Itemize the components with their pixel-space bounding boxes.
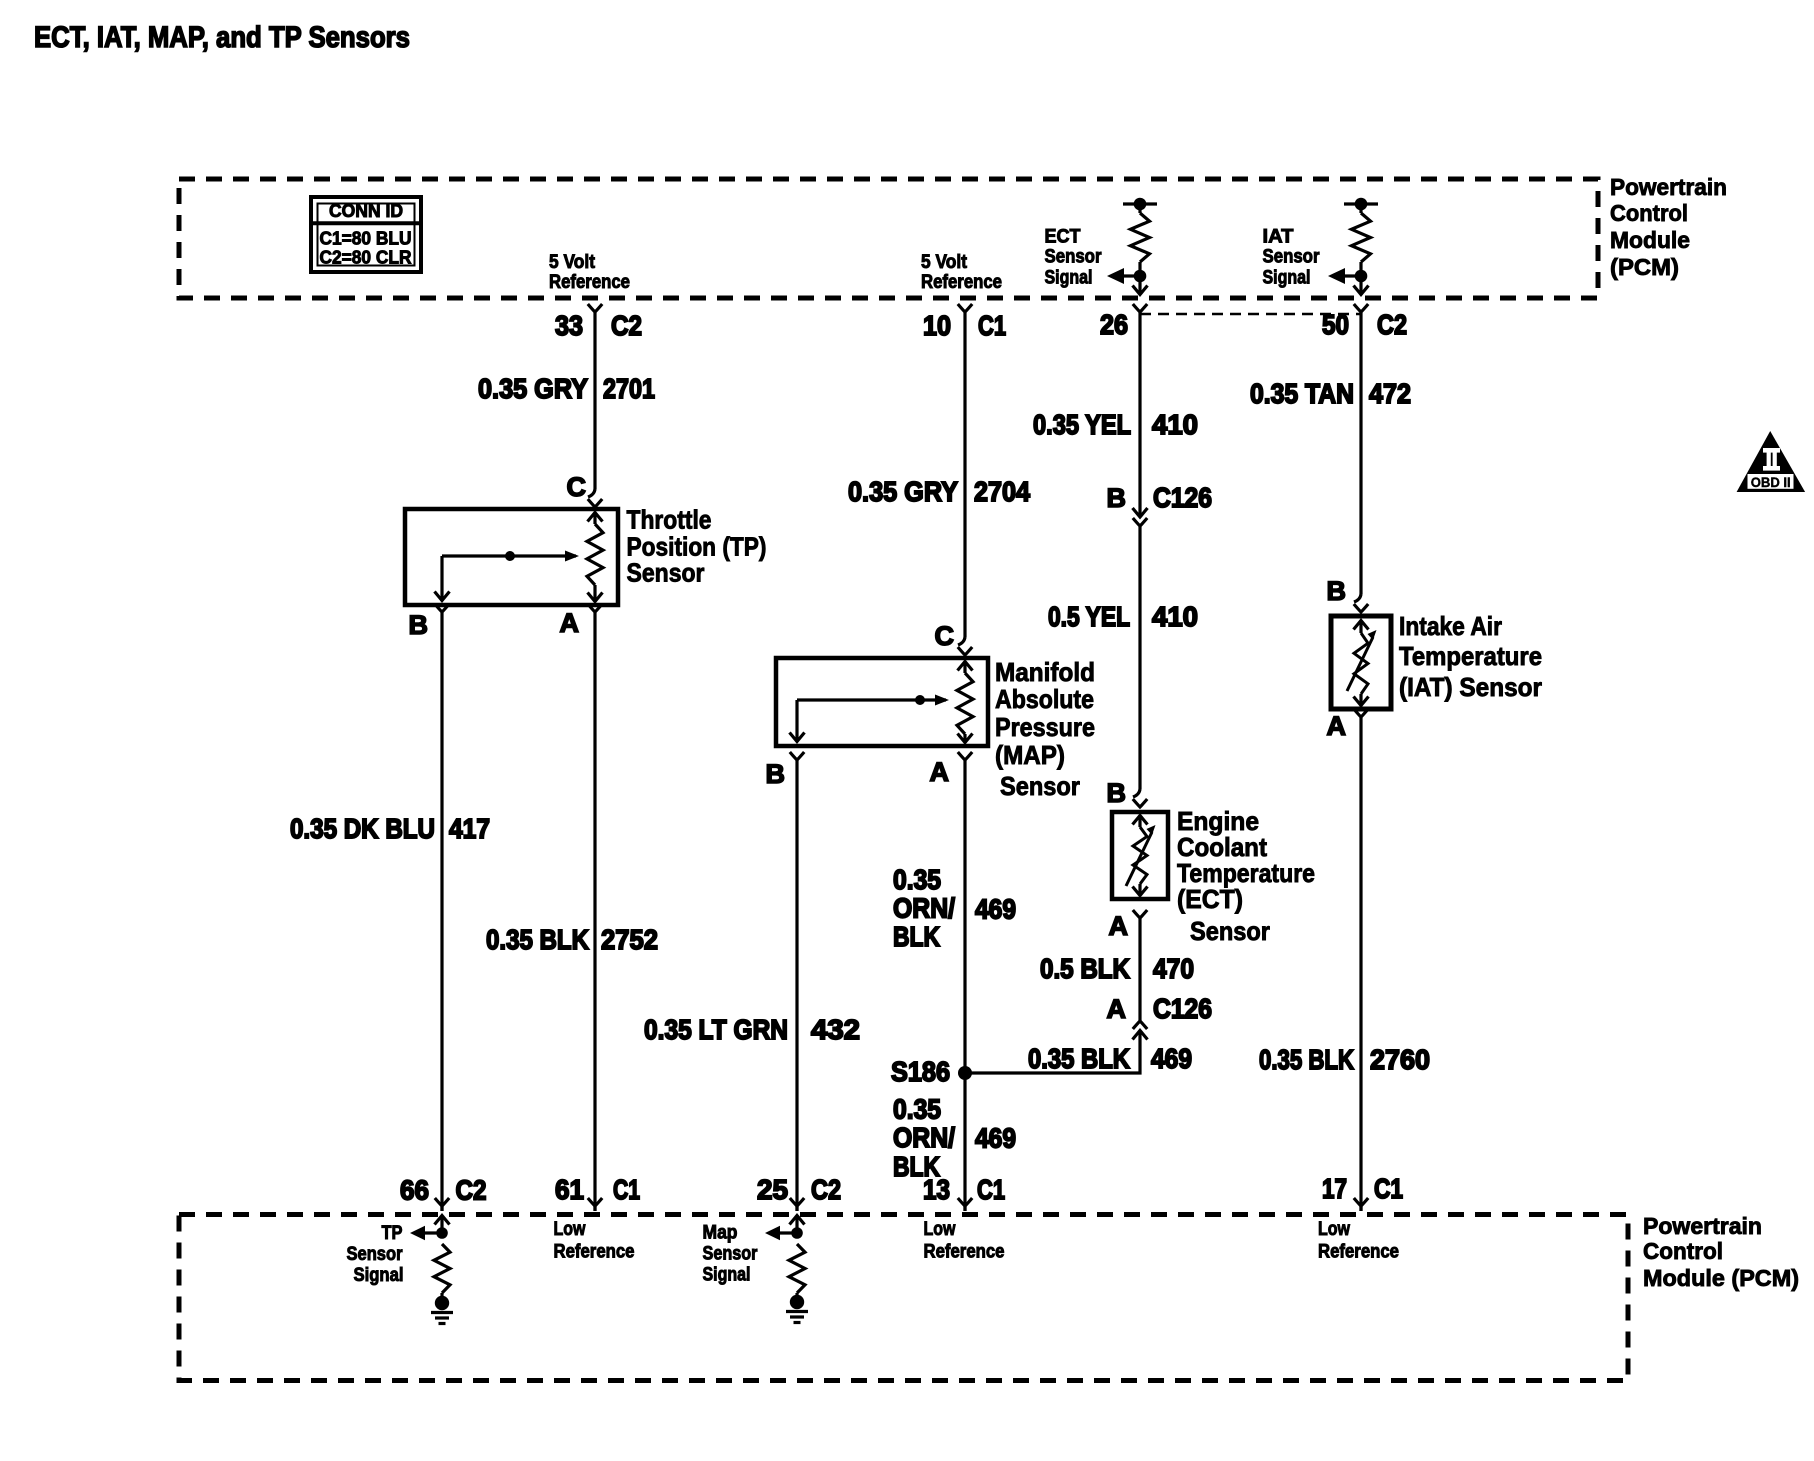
pin 66 C2 connector: [400, 1175, 487, 1212]
wire: IAT low reference 0.35 BLK 2760 (A to pin 17): [1359, 717, 1362, 1211]
terminal C of TP sensor: [567, 472, 603, 507]
svg-text:Temperature: Temperature: [1399, 641, 1542, 671]
label: 0.5 YEL 410: [1048, 601, 1198, 632]
svg-text:B: B: [1327, 576, 1346, 606]
svg-text:25: 25: [757, 1174, 788, 1205]
svg-text:A: A: [1107, 994, 1126, 1024]
wire: IAT signal to PCM pin (male terminal): [1354, 276, 1369, 295]
svg-text:469: 469: [975, 894, 1016, 925]
svg-text:C2: C2: [811, 1174, 841, 1205]
svg-text:472: 472: [1369, 378, 1411, 409]
svg-text:Module: Module: [1610, 227, 1690, 253]
svg-text:Low: Low: [554, 1218, 587, 1240]
ground (MAP signal termination): [786, 1295, 808, 1323]
wire: TP low reference 0.35 BLK 2752 (A to pin 61): [593, 612, 596, 1211]
svg-text:C: C: [935, 621, 954, 651]
terminal A of IAT sensor: [1327, 709, 1369, 741]
svg-text:0.35 BLK: 0.35 BLK: [1259, 1044, 1354, 1075]
wire: IAT sensor signal 0.35 TAN 472 (pin 50 to IAT sensor B): [1354, 312, 1361, 602]
PCM bottom dashed box (Powertrain Control Module): [179, 1215, 1628, 1381]
label: 0.35 GRY 2701: [478, 373, 655, 404]
label: IAT Sensor Signal: [1263, 225, 1320, 288]
svg-text:B: B: [1107, 483, 1126, 513]
label: TP Sensor Signal: [347, 1222, 404, 1286]
title: [34, 21, 410, 54]
thin dashed PCM edge between pins 26 and 50: [1140, 313, 1361, 315]
svg-text:C1: C1: [1374, 1173, 1403, 1204]
ground (TP signal termination): [431, 1296, 453, 1324]
svg-text:2760: 2760: [1370, 1044, 1430, 1075]
terminal A of MAP sensor: [930, 752, 973, 787]
IAT sensor signal pull-up resistor (in PCM): [1344, 198, 1378, 276]
svg-text:0.35: 0.35: [893, 864, 941, 895]
svg-text:A: A: [1109, 911, 1128, 941]
svg-text:A: A: [930, 757, 949, 787]
svg-text:Reference: Reference: [554, 1241, 635, 1263]
svg-text:C2=80 CLR: C2=80 CLR: [320, 248, 412, 268]
svg-text:Reference: Reference: [549, 271, 630, 293]
label: 0.5 BLK 470: [1040, 953, 1194, 984]
svg-text:Low: Low: [1318, 1218, 1351, 1240]
label: 0.35 BLK 2752: [486, 924, 658, 955]
svg-text:0.35 YEL: 0.35 YEL: [1033, 409, 1131, 440]
label: ECT Sensor Signal: [1045, 225, 1102, 288]
connector C126 terminal B: [1107, 482, 1213, 526]
svg-text:C1: C1: [978, 310, 1006, 341]
svg-text:5 Volt: 5 Volt: [921, 251, 967, 273]
pin 61 C1 connector: [555, 1174, 640, 1211]
terminal B of MAP sensor: [766, 752, 805, 789]
PCM top dashed box (Powertrain Control Module): [179, 179, 1598, 298]
label: Low Reference (pin 17): [1318, 1218, 1399, 1263]
wire: TP sensor signal 0.35 DK BLU 417 (B to pin 66): [440, 612, 443, 1211]
svg-text:Signal: Signal: [703, 1264, 751, 1286]
svg-text:(IAT) Sensor: (IAT) Sensor: [1399, 672, 1542, 702]
pin 26 connector: [1100, 304, 1147, 340]
IAT sensor box (Intake Air Temperature) with thermistor: [1331, 616, 1391, 709]
ECT sensor box (Engine Coolant Temperature) with thermistor: [1112, 812, 1168, 899]
label: Manifold Absolute Pressure (MAP) Sensor: [995, 657, 1095, 801]
svg-text:Reference: Reference: [921, 271, 1002, 293]
svg-text:0.35 BLK: 0.35 BLK: [486, 924, 589, 955]
label: Throttle Position (TP) Sensor: [627, 505, 767, 588]
wire: ECT sensor signal 0.35 YEL 410 (pin 26 to C126): [1133, 312, 1148, 517]
terminal C of MAP sensor: [935, 621, 973, 655]
svg-text:B: B: [1107, 778, 1126, 808]
svg-text:Sensor: Sensor: [347, 1243, 403, 1265]
svg-text:0.5 YEL: 0.5 YEL: [1048, 601, 1130, 632]
svg-text:0.35 DK BLU: 0.35 DK BLU: [290, 813, 435, 844]
svg-text:Reference: Reference: [1318, 1241, 1399, 1263]
MAP sensor box (Manifold Absolute Pressure): [776, 658, 988, 746]
svg-text:Throttle: Throttle: [627, 505, 712, 535]
connector C126 terminal A: [1107, 993, 1213, 1040]
svg-text:2752: 2752: [601, 924, 658, 955]
svg-text:0.35 LT GRN: 0.35 LT GRN: [644, 1014, 788, 1045]
svg-text:2701: 2701: [603, 373, 655, 404]
svg-text:C1=80 BLU: C1=80 BLU: [320, 229, 412, 249]
terminal B of TP sensor: [409, 604, 450, 640]
svg-text:Sensor: Sensor: [627, 558, 705, 588]
svg-text:(PCM): (PCM): [1610, 254, 1679, 280]
svg-text:C: C: [567, 472, 586, 502]
wire: 0.35 BLK 469 (C126 to splice S186): [965, 1031, 1140, 1074]
svg-text:(ECT): (ECT): [1177, 884, 1243, 914]
svg-text:33: 33: [555, 310, 583, 341]
svg-text:ECT: ECT: [1045, 225, 1081, 247]
svg-text:Powertrain: Powertrain: [1643, 1213, 1762, 1239]
node: ECT sensor signal junction: [1107, 268, 1146, 284]
svg-text:C2: C2: [456, 1175, 487, 1206]
label: 0.35 TAN 472: [1250, 378, 1411, 409]
label: 0.35 YEL 410: [1033, 409, 1198, 440]
svg-text:Sensor: Sensor: [1263, 246, 1320, 268]
label: 0.35 LT GRN 432: [644, 1014, 860, 1045]
svg-text:Manifold: Manifold: [995, 657, 1095, 687]
svg-text:13: 13: [923, 1174, 950, 1205]
svg-text:C126: C126: [1153, 482, 1212, 513]
pin 50 C2 connector: [1322, 304, 1407, 340]
svg-text:C2: C2: [611, 310, 642, 341]
svg-text:Intake Air: Intake Air: [1399, 611, 1502, 641]
svg-text:TP: TP: [382, 1222, 403, 1244]
label: 0.35 ORN/BLK 469 (above S186): [893, 864, 1016, 952]
svg-text:0.35 TAN: 0.35 TAN: [1250, 378, 1354, 409]
wire: ECT signal to PCM pin (male terminal): [1133, 276, 1148, 295]
svg-text:Control: Control: [1643, 1238, 1723, 1264]
splice S186: [891, 1056, 972, 1087]
pin 17 C1 connector: [1322, 1173, 1403, 1211]
svg-text:26: 26: [1100, 309, 1128, 340]
svg-text:0.5 BLK: 0.5 BLK: [1040, 953, 1130, 984]
terminal B of IAT sensor: [1327, 576, 1369, 612]
svg-text:Module (PCM): Module (PCM): [1643, 1265, 1799, 1291]
svg-text:469: 469: [975, 1123, 1016, 1154]
label: Map Sensor Signal: [703, 1222, 758, 1286]
svg-text:CONN ID: CONN ID: [329, 201, 403, 221]
svg-text:432: 432: [811, 1014, 860, 1045]
wire: 0.5 BLK 470 (ECT sensor A to C126): [1138, 918, 1141, 1021]
svg-text:A: A: [560, 608, 579, 638]
label: 0.35 BLK 469: [1028, 1043, 1192, 1074]
svg-text:Map: Map: [703, 1222, 738, 1244]
svg-text:2704: 2704: [974, 476, 1030, 507]
ECT sensor signal pull-up resistor (in PCM): [1123, 198, 1157, 276]
svg-text:410: 410: [1152, 409, 1198, 440]
svg-text:417: 417: [449, 813, 490, 844]
svg-text:10: 10: [923, 310, 951, 341]
MAP sensor signal input circuit in PCM (pin 25): [765, 1216, 805, 1298]
svg-text:Low: Low: [924, 1218, 957, 1240]
svg-text:0.35: 0.35: [893, 1094, 941, 1125]
CONN ID table: [311, 197, 421, 272]
svg-text:66: 66: [400, 1175, 429, 1206]
svg-text:C1: C1: [977, 1174, 1005, 1205]
svg-text:17: 17: [1322, 1173, 1347, 1204]
svg-text:0.35 BLK: 0.35 BLK: [1028, 1043, 1130, 1074]
label: 5 Volt Reference (TP): [549, 251, 630, 293]
svg-text:C126: C126: [1153, 993, 1212, 1024]
svg-text:ORN/: ORN/: [893, 1122, 955, 1153]
svg-text:C2: C2: [1377, 309, 1407, 340]
node: IAT sensor signal junction: [1328, 268, 1367, 284]
label: 5 Volt Reference (MAP): [921, 251, 1002, 293]
label: 0.35 DK BLU 417: [290, 813, 490, 844]
svg-text:Sensor: Sensor: [1190, 916, 1270, 946]
label: Powertrain Control Module (PCM) top right: [1610, 174, 1727, 280]
svg-text:61: 61: [555, 1174, 584, 1205]
svg-text:5 Volt: 5 Volt: [549, 251, 595, 273]
svg-text:Sensor: Sensor: [703, 1242, 758, 1264]
TP sensor signal input circuit in PCM (pin 66): [410, 1216, 450, 1298]
pin 13 C1 connector: [923, 1174, 1005, 1211]
svg-text:Signal: Signal: [1263, 266, 1311, 288]
svg-text:IAT: IAT: [1263, 225, 1294, 247]
svg-text:S186: S186: [891, 1056, 950, 1087]
label: Powertrain Control Module (PCM) bottom right: [1643, 1213, 1799, 1291]
svg-text:C1: C1: [613, 1174, 640, 1205]
potentiometer in TP sensor: [435, 513, 604, 602]
svg-text:469: 469: [1151, 1043, 1192, 1074]
pin 33 C2 connector: [555, 304, 642, 341]
label: Engine Coolant Temperature (ECT) Sensor: [1177, 806, 1315, 946]
label: 0.35 GRY 2704: [848, 476, 1030, 507]
wire: 0.5 YEL 410 (C126 to ECT sensor B): [1133, 526, 1140, 797]
wire: 5V reference 0.35 GRY 2704 (pin 10 to MAP sensor C): [958, 312, 965, 645]
label: Low Reference (pin 61): [554, 1218, 635, 1263]
terminal A of ECT sensor: [1109, 910, 1148, 941]
svg-text:Absolute: Absolute: [995, 684, 1094, 714]
svg-text:Control: Control: [1610, 200, 1688, 226]
svg-text:410: 410: [1152, 601, 1198, 632]
pin 10 C1 connector: [923, 304, 1006, 341]
svg-text:Signal: Signal: [1045, 266, 1093, 288]
label: 0.35 BLK 2760: [1259, 1044, 1430, 1075]
svg-text:A: A: [1327, 711, 1346, 741]
svg-text:BLK: BLK: [893, 921, 940, 952]
label: Low Reference (pin 13): [924, 1218, 1005, 1263]
svg-text:Signal: Signal: [354, 1264, 404, 1286]
svg-text:Reference: Reference: [924, 1241, 1005, 1263]
svg-text:(MAP): (MAP): [995, 740, 1065, 770]
svg-text:ORN/: ORN/: [893, 893, 955, 924]
pin 25 C2 connector: [757, 1174, 841, 1211]
svg-text:OBD II: OBD II: [1751, 475, 1791, 490]
svg-text:B: B: [409, 610, 428, 640]
OBD II emblem: [1737, 431, 1806, 492]
label: Intake Air Temperature (IAT) Sensor: [1399, 611, 1542, 702]
svg-text:Sensor: Sensor: [1045, 246, 1102, 268]
wire: MAP low reference 0.35 ORN/BLK 469 (A to S186): [963, 760, 966, 1211]
svg-text:B: B: [766, 759, 785, 789]
svg-text:Sensor: Sensor: [1000, 771, 1080, 801]
potentiometer in MAP sensor: [790, 662, 974, 743]
svg-text:0.35 GRY: 0.35 GRY: [478, 373, 588, 404]
svg-text:470: 470: [1153, 953, 1194, 984]
terminal B of ECT sensor: [1107, 778, 1148, 808]
TP sensor box (Throttle Position): [405, 509, 618, 605]
svg-text:Pressure: Pressure: [995, 712, 1095, 742]
wire: 5V reference 0.35 GRY 2701 (pin 33 to TP sensor C): [588, 312, 595, 497]
svg-text:Powertrain: Powertrain: [1610, 174, 1727, 200]
label: 0.35 ORN/BLK 469 (below S186): [893, 1094, 1016, 1183]
terminal A of TP sensor: [560, 604, 603, 638]
wire: MAP sensor signal 0.35 LT GRN 432 (B to pin 25): [795, 760, 798, 1211]
svg-text:0.35 GRY: 0.35 GRY: [848, 476, 958, 507]
svg-text:ECT, IAT, MAP, and TP Sensors: ECT, IAT, MAP, and TP Sensors: [34, 21, 410, 54]
